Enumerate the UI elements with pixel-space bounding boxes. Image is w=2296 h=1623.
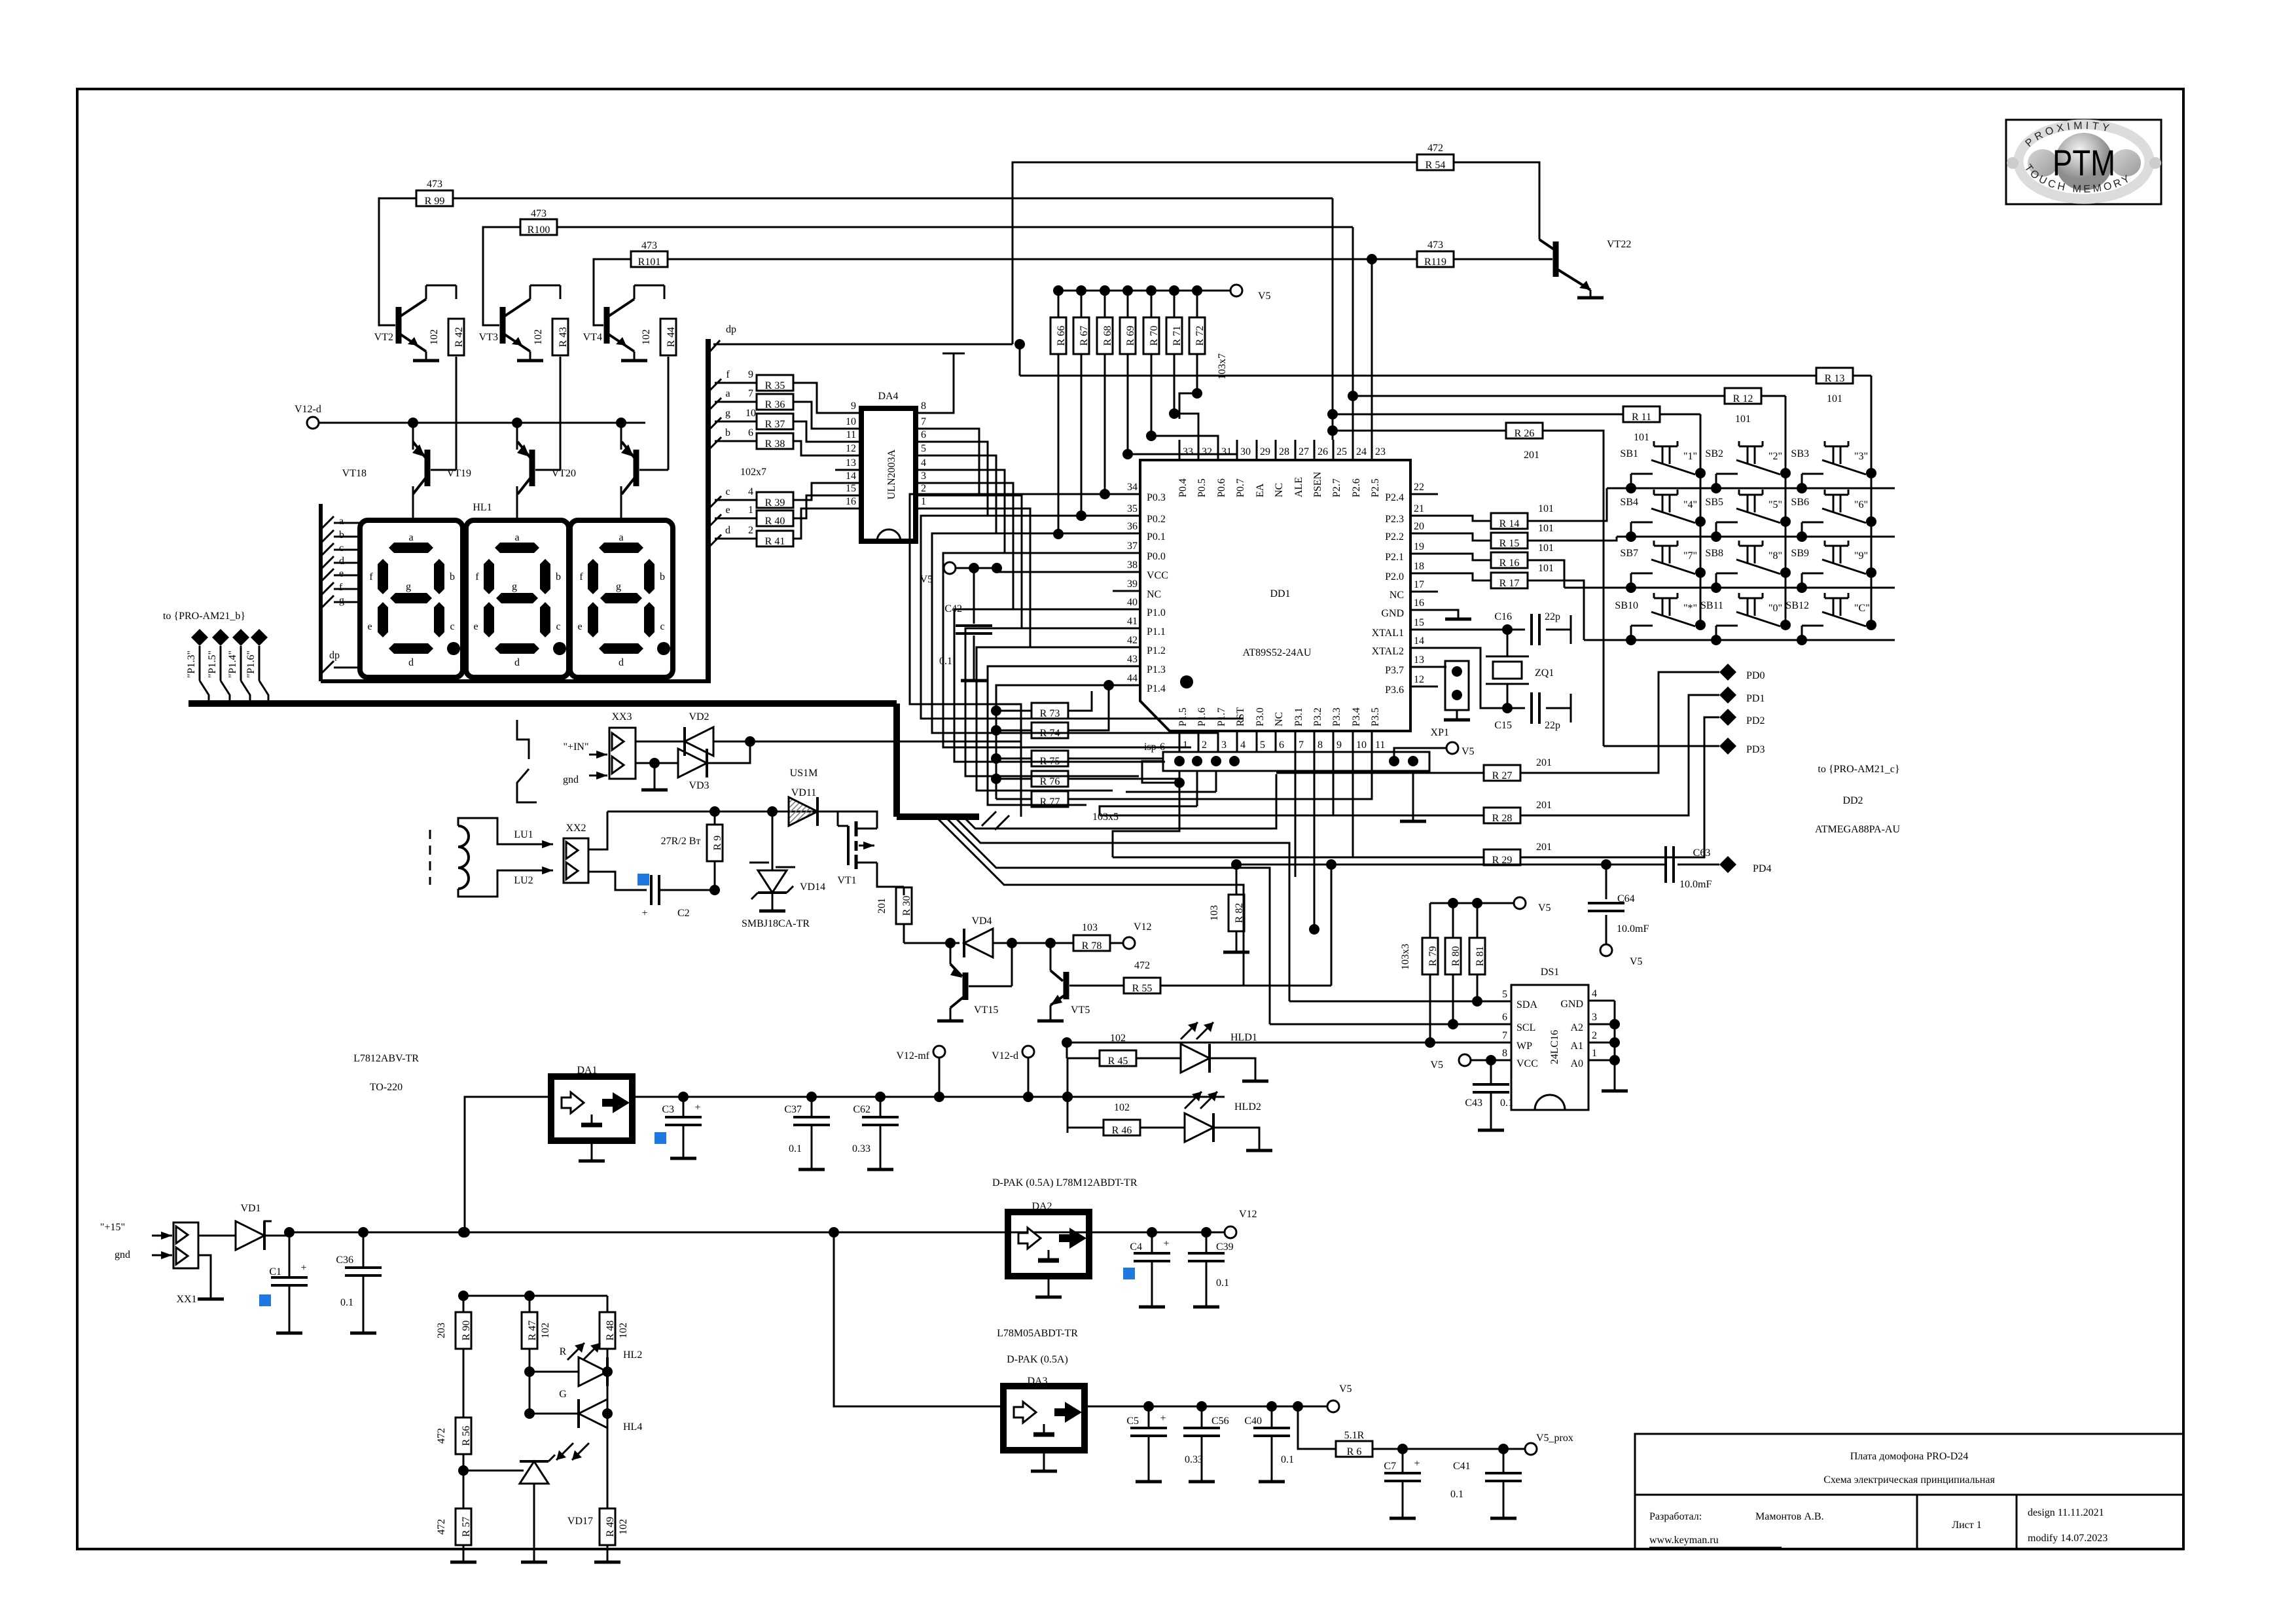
resistor R75 bbox=[991, 753, 1001, 764]
svg-text:V12-d: V12-d bbox=[992, 1050, 1018, 1061]
svg-text:"C": "C" bbox=[1854, 603, 1870, 614]
svg-text:8: 8 bbox=[1318, 740, 1323, 751]
svg-text:L78M05ABDT-TR: L78M05ABDT-TR bbox=[997, 1328, 1078, 1339]
node V12-mf bbox=[934, 1092, 944, 1102]
svg-text:7: 7 bbox=[1502, 1030, 1507, 1041]
capacitor C1 bbox=[289, 1232, 291, 1276]
wire XP1 gnd bbox=[1412, 771, 1414, 821]
resistor R16 bbox=[1438, 554, 1492, 560]
wire SB column 3 bbox=[1871, 376, 1873, 625]
svg-text:+: + bbox=[1160, 1413, 1166, 1424]
title block divider v1 bbox=[1916, 1495, 1918, 1549]
svg-text:a: a bbox=[408, 532, 413, 543]
svg-text:SB8: SB8 bbox=[1705, 548, 1723, 559]
title block outline bbox=[1635, 1434, 2183, 1549]
wire R79 down bbox=[1429, 974, 1431, 1043]
junction C36 bbox=[358, 1227, 368, 1238]
resistor R46 bbox=[1067, 1127, 1103, 1129]
svg-text:VT15: VT15 bbox=[974, 1005, 998, 1016]
svg-text:f: f bbox=[579, 571, 583, 582]
wire DD1 left bundle bbox=[910, 494, 1113, 741]
resistor R55 bbox=[1124, 978, 1160, 993]
wire DA2 out bbox=[1089, 1232, 1225, 1234]
svg-text:14: 14 bbox=[846, 471, 856, 482]
resistor R37 row bbox=[708, 418, 721, 431]
svg-text:C3: C3 bbox=[662, 1104, 674, 1115]
capacitor C40 bbox=[1271, 1406, 1273, 1428]
wire base VT18 bbox=[456, 357, 457, 470]
svg-text:SDA: SDA bbox=[1516, 999, 1537, 1010]
svg-text:5: 5 bbox=[1502, 989, 1507, 1000]
wire R71 to P0.5 bbox=[1174, 354, 1198, 440]
diode VD14 tvs bbox=[772, 811, 774, 870]
svg-text:"P1.6": "P1.6" bbox=[245, 651, 257, 678]
transistor VT1 mosfet bbox=[837, 811, 839, 826]
svg-text:V5_prox: V5_prox bbox=[1536, 1433, 1573, 1444]
capacitor C63 bbox=[1606, 864, 1666, 866]
svg-text:XX2: XX2 bbox=[565, 823, 586, 834]
svg-text:8: 8 bbox=[1502, 1048, 1507, 1059]
svg-text:R 38: R 38 bbox=[765, 438, 785, 450]
svg-text:ALE: ALE bbox=[1293, 477, 1304, 497]
svg-text:22p: 22p bbox=[1545, 720, 1560, 731]
svg-text:4: 4 bbox=[921, 457, 926, 469]
resistor R 66 bbox=[1050, 317, 1066, 354]
svg-text:11: 11 bbox=[846, 429, 856, 440]
switch SB6 bbox=[1866, 516, 1876, 527]
resistor R45 bbox=[1067, 1058, 1100, 1060]
resistor R57 bbox=[456, 1508, 471, 1545]
svg-text:g: g bbox=[512, 581, 517, 592]
svg-text:"4": "4" bbox=[1683, 499, 1697, 510]
capacitor C56 bbox=[1201, 1406, 1203, 1428]
svg-text:R 49: R 49 bbox=[605, 1517, 616, 1537]
wire R73 right bbox=[1067, 691, 1092, 711]
svg-text:R 81: R 81 bbox=[1475, 946, 1486, 967]
svg-text:102: 102 bbox=[618, 1519, 629, 1535]
svg-text:R 80: R 80 bbox=[1450, 946, 1462, 967]
bus bottom horizontal bbox=[897, 813, 979, 820]
svg-text:R 6: R 6 bbox=[1347, 1446, 1362, 1457]
wire R27 right bbox=[1520, 672, 1719, 773]
svg-text:7: 7 bbox=[748, 388, 753, 399]
transistor VT4 bbox=[604, 307, 610, 344]
svg-text:0.1: 0.1 bbox=[1216, 1277, 1229, 1289]
wire isp pins down bbox=[1179, 771, 1181, 783]
switch SB1 bbox=[1695, 468, 1706, 478]
svg-text:R 57: R 57 bbox=[461, 1517, 472, 1537]
svg-text:C37: C37 bbox=[784, 1104, 802, 1115]
svg-text:SB1: SB1 bbox=[1620, 448, 1638, 459]
svg-text:b: b bbox=[660, 571, 665, 582]
wire DA1 feed up bbox=[465, 1097, 551, 1232]
capacitor C15 bbox=[1507, 707, 1525, 709]
wire led top rail bbox=[463, 1295, 607, 1297]
svg-text:P0.2: P0.2 bbox=[1147, 514, 1166, 525]
resistor R119 bbox=[1417, 251, 1454, 267]
ground XX3 bbox=[654, 763, 656, 789]
svg-text:6: 6 bbox=[748, 427, 753, 438]
wire R100 to bus bbox=[557, 226, 1353, 228]
svg-text:5: 5 bbox=[1260, 740, 1265, 751]
svg-text:43: 43 bbox=[1127, 654, 1138, 665]
svg-text:9: 9 bbox=[1336, 740, 1342, 751]
svg-text:R 11: R 11 bbox=[1632, 412, 1651, 423]
wire R36-DA4 bbox=[793, 402, 835, 429]
svg-text:16: 16 bbox=[846, 496, 856, 507]
wire R99 left bbox=[379, 198, 416, 325]
resistor R40 row bbox=[708, 514, 721, 527]
resistor R 72 bbox=[1189, 317, 1205, 354]
wire SB row bus 3 bbox=[1564, 587, 1895, 589]
svg-text:R 40: R 40 bbox=[765, 516, 785, 527]
svg-text:P3.7: P3.7 bbox=[1385, 665, 1404, 676]
svg-text:0.1: 0.1 bbox=[939, 656, 952, 667]
svg-text:10.0mF: 10.0mF bbox=[1617, 923, 1649, 935]
svg-text:P1.7: P1.7 bbox=[1216, 707, 1227, 726]
wire XX2 top bbox=[588, 811, 607, 849]
svg-text:24LC16: 24LC16 bbox=[1549, 1030, 1560, 1064]
resistor R15 bbox=[1438, 533, 1492, 541]
display HL1 digit 1 bbox=[360, 520, 463, 677]
svg-text:GND: GND bbox=[1560, 999, 1583, 1010]
IC DD1 left pins bbox=[1113, 493, 1140, 495]
svg-text:10: 10 bbox=[1356, 740, 1367, 751]
svg-text:VD14: VD14 bbox=[800, 882, 825, 893]
switch SB5 bbox=[1780, 516, 1791, 527]
svg-text:P0.0: P0.0 bbox=[1147, 551, 1166, 562]
wire R15 right bbox=[1528, 537, 1617, 541]
wire XTAL2 bbox=[1438, 648, 1507, 708]
connector XX2 bbox=[564, 838, 588, 883]
wire VD2 out bbox=[750, 741, 1021, 743]
svg-text:R 70: R 70 bbox=[1149, 326, 1160, 346]
svg-text:d: d bbox=[514, 657, 520, 668]
svg-text:R 45: R 45 bbox=[1108, 1056, 1128, 1067]
wire VT1 drain bbox=[838, 811, 877, 829]
svg-text:P1.2: P1.2 bbox=[1147, 645, 1166, 656]
wire R28 right bbox=[1520, 695, 1719, 815]
wire XX2 bottom bbox=[588, 872, 647, 890]
svg-text:P0.4: P0.4 bbox=[1177, 478, 1189, 497]
port PD2 bbox=[1719, 709, 1736, 726]
IC DS1 pins bbox=[1485, 1001, 1511, 1003]
svg-text:13: 13 bbox=[846, 457, 856, 469]
resistor R41 row bbox=[708, 535, 721, 548]
wire SB column 2 bbox=[1785, 396, 1787, 625]
svg-text:P2.1: P2.1 bbox=[1385, 552, 1404, 563]
svg-text:PD3: PD3 bbox=[1746, 744, 1765, 755]
svg-text:25: 25 bbox=[1336, 446, 1347, 457]
svg-text:a: a bbox=[339, 516, 344, 527]
wire R17 right bbox=[1528, 580, 1584, 640]
capacitor C2 bbox=[637, 874, 649, 885]
wire WP bbox=[1067, 1042, 1485, 1044]
svg-text:f: f bbox=[726, 369, 730, 380]
transistor VT2 bbox=[396, 307, 402, 344]
wire XX1 gnd bbox=[198, 1255, 211, 1298]
svg-text:0.33: 0.33 bbox=[852, 1143, 870, 1154]
wire SB row bus 4 bbox=[1584, 639, 1895, 641]
svg-text:Лист 1: Лист 1 bbox=[1952, 1520, 1982, 1531]
diode HLD2 bbox=[1185, 1113, 1213, 1142]
svg-text:P0.5: P0.5 bbox=[1196, 478, 1208, 497]
resistor R56 bbox=[456, 1418, 471, 1454]
svg-text:12: 12 bbox=[846, 443, 856, 454]
resistor R12 bbox=[1725, 388, 1761, 404]
resistor R13 bbox=[1816, 368, 1853, 383]
svg-text:R 67: R 67 bbox=[1079, 326, 1090, 346]
svg-text:C5: C5 bbox=[1126, 1416, 1139, 1427]
capacitor C5 bbox=[1148, 1406, 1150, 1428]
wire P2.6 drop bbox=[1352, 227, 1354, 440]
svg-text:f: f bbox=[475, 571, 479, 582]
svg-text:101: 101 bbox=[1538, 503, 1554, 514]
svg-text:11: 11 bbox=[1375, 740, 1385, 751]
svg-text:d: d bbox=[408, 657, 414, 668]
junction C40 bbox=[1266, 1401, 1277, 1412]
svg-text:R 41: R 41 bbox=[765, 536, 785, 547]
svg-text:R 75: R 75 bbox=[1040, 756, 1060, 767]
capacitor C4 bbox=[1151, 1232, 1153, 1253]
svg-text:PSEN: PSEN bbox=[1312, 471, 1323, 497]
wire isp left bbox=[1142, 761, 1179, 783]
svg-text:VT2: VT2 bbox=[374, 332, 393, 343]
resistor R99 bbox=[416, 190, 453, 206]
svg-text:3: 3 bbox=[1592, 1012, 1597, 1023]
switch SB8 bbox=[1780, 567, 1791, 578]
svg-text:XX3: XX3 bbox=[611, 711, 632, 722]
svg-text:101: 101 bbox=[1538, 563, 1554, 574]
svg-text:DA4: DA4 bbox=[878, 391, 898, 402]
svg-text:P3.2: P3.2 bbox=[1312, 707, 1323, 726]
svg-text:g: g bbox=[616, 581, 621, 592]
node V5 XP1 bbox=[1446, 742, 1458, 754]
bus slashes bbox=[982, 811, 996, 826]
node dp bus vertical bbox=[706, 339, 711, 683]
svg-text:VT3: VT3 bbox=[479, 332, 498, 343]
wire DS1 right gnd bbox=[1614, 1001, 1616, 1080]
svg-text:SB7: SB7 bbox=[1620, 548, 1638, 559]
svg-text:R 71: R 71 bbox=[1172, 326, 1183, 346]
wire R29 left bbox=[1113, 857, 1484, 859]
wire top rail bbox=[607, 811, 861, 813]
svg-text:18: 18 bbox=[1414, 561, 1424, 572]
switch SB11 bbox=[1780, 620, 1791, 630]
svg-text:d: d bbox=[725, 525, 730, 536]
svg-text:4: 4 bbox=[1592, 988, 1597, 999]
wire mid h2 bbox=[936, 817, 1244, 986]
svg-text:e: e bbox=[473, 621, 478, 632]
wire DA4 pin8 up bbox=[942, 353, 954, 413]
svg-text:103x5: 103x5 bbox=[1092, 811, 1119, 823]
svg-text:DS1: DS1 bbox=[1541, 967, 1559, 978]
svg-text:VT22: VT22 bbox=[1607, 239, 1631, 250]
switch SB2 bbox=[1780, 468, 1791, 478]
svg-text:a: a bbox=[514, 532, 519, 543]
svg-text:203: 203 bbox=[436, 1323, 447, 1338]
svg-text:AT89S52-24AU: AT89S52-24AU bbox=[1243, 647, 1312, 658]
svg-text:1: 1 bbox=[1183, 740, 1188, 751]
svg-text:102: 102 bbox=[1114, 1102, 1130, 1113]
junction C5 bbox=[1143, 1401, 1154, 1412]
svg-text:d: d bbox=[619, 657, 624, 668]
diode VD11 bbox=[772, 811, 779, 812]
svg-text:design 11.11.2021: design 11.11.2021 bbox=[2028, 1507, 2104, 1518]
svg-text:XP1: XP1 bbox=[1431, 727, 1449, 738]
svg-text:SB2: SB2 bbox=[1705, 448, 1723, 459]
svg-text:HLD2: HLD2 bbox=[1234, 1101, 1261, 1113]
title block divider v2 bbox=[2016, 1495, 2018, 1549]
svg-text:PD4: PD4 bbox=[1753, 863, 1771, 874]
svg-text:D-PAK (0.5A) L78M12ABDT-TR: D-PAK (0.5A) L78M12ABDT-TR bbox=[992, 1177, 1138, 1188]
diode VD3 bbox=[636, 762, 655, 764]
svg-text:V5: V5 bbox=[1538, 902, 1551, 914]
wire base VT19 bbox=[560, 357, 562, 470]
svg-text:A1: A1 bbox=[1570, 1041, 1583, 1052]
svg-text:Схема электрическая принципиал: Схема электрическая принципиальная bbox=[1823, 1474, 1995, 1486]
svg-text:NC: NC bbox=[1147, 589, 1161, 600]
svg-text:102: 102 bbox=[540, 1323, 551, 1338]
svg-text:35: 35 bbox=[1127, 503, 1138, 514]
svg-text:R 12: R 12 bbox=[1733, 393, 1753, 404]
wire SB column 1 bbox=[1700, 414, 1702, 625]
wire WP left bbox=[1066, 1043, 1068, 1058]
wire bus fan 2 bbox=[954, 817, 1289, 1001]
svg-text:102x7: 102x7 bbox=[740, 467, 766, 478]
wire base VT20 bbox=[668, 357, 670, 470]
svg-text:R 69: R 69 bbox=[1125, 326, 1136, 346]
wire R100 left bbox=[483, 227, 520, 325]
node V12-d rail bbox=[313, 422, 645, 424]
svg-text:C56: C56 bbox=[1211, 1416, 1229, 1427]
svg-text:R101: R101 bbox=[638, 257, 661, 268]
IC DD1 bottom pins bbox=[1179, 731, 1181, 751]
wire P3.3 down bbox=[1333, 751, 1335, 815]
svg-text:R 27: R 27 bbox=[1492, 770, 1513, 781]
switch SB7 bbox=[1695, 567, 1706, 578]
wire DA4 outputs bundle bbox=[942, 429, 979, 494]
svg-text:HLD1: HLD1 bbox=[1230, 1032, 1257, 1043]
switch SB3 bbox=[1866, 468, 1876, 478]
svg-text:SB11: SB11 bbox=[1700, 600, 1723, 611]
svg-text:NC: NC bbox=[1390, 590, 1404, 601]
wire R101 to R119 line bbox=[668, 259, 1418, 260]
junction DA2 feed bbox=[829, 1227, 839, 1238]
svg-text:XTAL1: XTAL1 bbox=[1372, 628, 1404, 639]
svg-text:"P1.4": "P1.4" bbox=[227, 651, 238, 678]
wire P2.5 drop bbox=[1371, 259, 1373, 440]
svg-text:P2.3: P2.3 bbox=[1385, 514, 1404, 525]
capacitor C43 bbox=[1490, 1060, 1492, 1083]
svg-text:SB6: SB6 bbox=[1791, 497, 1809, 508]
wire SB row bus 2 bbox=[1617, 536, 1895, 538]
svg-text:3: 3 bbox=[921, 471, 926, 482]
resistor R82 bbox=[1236, 865, 1238, 895]
svg-text:LU1: LU1 bbox=[514, 829, 533, 840]
svg-text:472: 472 bbox=[436, 1519, 447, 1535]
svg-text:36: 36 bbox=[1127, 521, 1138, 532]
svg-text:2: 2 bbox=[1202, 740, 1207, 751]
diode HLD1 bbox=[1181, 1044, 1210, 1073]
wire R39-DA4 bbox=[793, 483, 835, 500]
svg-text:VT18: VT18 bbox=[342, 468, 367, 479]
svg-text:SMBJ18CA-TR: SMBJ18CA-TR bbox=[742, 918, 810, 929]
svg-text:A2: A2 bbox=[1570, 1022, 1583, 1033]
svg-text:V12: V12 bbox=[1134, 921, 1152, 933]
svg-text:"+15": "+15" bbox=[100, 1222, 125, 1233]
wire DA2 gnd bbox=[1048, 1276, 1050, 1296]
svg-text:ATMEGA88PA-AU: ATMEGA88PA-AU bbox=[1815, 824, 1901, 835]
svg-text:P3.1: P3.1 bbox=[1293, 707, 1304, 726]
port PD1 bbox=[1719, 687, 1736, 704]
svg-text:"+IN": "+IN" bbox=[564, 741, 589, 753]
svg-text:9: 9 bbox=[748, 369, 753, 380]
display HL1 digit 3 bbox=[570, 520, 673, 677]
svg-text:P3.4: P3.4 bbox=[1351, 707, 1362, 726]
svg-text:+: + bbox=[694, 1102, 700, 1113]
resistor R11 bbox=[1623, 406, 1660, 422]
wire R49 col bbox=[607, 1414, 608, 1508]
svg-text:C39: C39 bbox=[1216, 1241, 1234, 1253]
svg-text:7: 7 bbox=[921, 416, 926, 427]
switch SB10 bbox=[1695, 620, 1706, 630]
svg-text:26: 26 bbox=[1318, 446, 1328, 457]
svg-text:33: 33 bbox=[1183, 446, 1193, 457]
svg-text:14: 14 bbox=[1414, 635, 1424, 647]
resistor R80 bbox=[1452, 903, 1454, 938]
wire R101 left bbox=[594, 259, 631, 325]
svg-text:101: 101 bbox=[1538, 543, 1554, 554]
wire XTAL1 bbox=[1438, 629, 1507, 631]
connector XX1 bbox=[173, 1222, 198, 1268]
resistor R27 bbox=[1484, 765, 1520, 781]
svg-text:V5: V5 bbox=[1258, 291, 1271, 302]
IC DA4 notch bbox=[877, 529, 901, 541]
svg-text:1: 1 bbox=[1592, 1048, 1597, 1059]
svg-text:SB5: SB5 bbox=[1705, 497, 1723, 508]
svg-text:102: 102 bbox=[1110, 1033, 1126, 1044]
wire DA3 out bbox=[1085, 1406, 1327, 1408]
resistor R42 bbox=[448, 319, 464, 355]
svg-text:c: c bbox=[556, 621, 560, 632]
wire VT1 source bbox=[877, 863, 904, 887]
junction C7 bbox=[1397, 1444, 1408, 1454]
svg-text:P2.5: P2.5 bbox=[1370, 478, 1381, 497]
wire R67 down bbox=[1081, 354, 1083, 516]
svg-text:c: c bbox=[725, 486, 730, 497]
svg-text:473: 473 bbox=[1427, 240, 1443, 251]
crystal ZQ1 bbox=[1507, 630, 1509, 656]
inductor LU coil bbox=[458, 826, 469, 889]
wire dp line bbox=[713, 344, 1013, 346]
svg-text:"7": "7" bbox=[1683, 550, 1697, 562]
wire SB row bus 1 bbox=[1607, 488, 1895, 490]
svg-text:to {PRO-AM21_c}: to {PRO-AM21_c} bbox=[1818, 764, 1899, 775]
svg-text:HL1: HL1 bbox=[473, 502, 492, 513]
svg-text:40: 40 bbox=[1127, 597, 1138, 608]
svg-text:R 13: R 13 bbox=[1825, 373, 1845, 384]
svg-text:9: 9 bbox=[851, 401, 856, 412]
svg-text:201: 201 bbox=[1536, 842, 1552, 853]
svg-text:C43: C43 bbox=[1465, 1097, 1482, 1109]
capacitor C64 bbox=[1605, 865, 1607, 899]
wire R66 down bbox=[1058, 354, 1060, 534]
svg-text:473: 473 bbox=[427, 179, 442, 190]
wire R54 left bbox=[1013, 162, 1417, 344]
svg-text:+: + bbox=[1163, 1238, 1169, 1249]
svg-text:R 37: R 37 bbox=[765, 419, 785, 430]
